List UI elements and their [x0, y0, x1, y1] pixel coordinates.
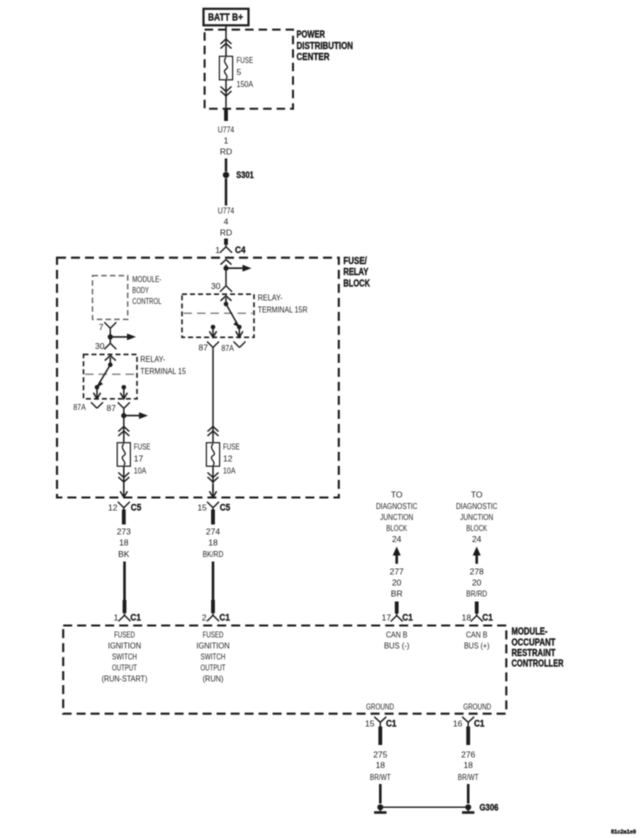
wire fuse to PDC exit [225, 80, 227, 109]
relay 15R coil bar [184, 312, 253, 314]
C4 mate chevron inside block [221, 260, 232, 265]
connector C4 pin 1 [220, 245, 232, 253]
svg-text:RELAY-: RELAY- [258, 292, 283, 302]
relay 15 pin 87 exit arrow [123, 387, 125, 399]
svg-text:87: 87 [199, 343, 209, 353]
svg-text:GROUND: GROUND [463, 702, 491, 712]
svg-text:BK: BK [118, 549, 130, 559]
svg-text:16: 16 [453, 718, 463, 728]
relay 15 pin 87A exit arrow [96, 387, 98, 399]
svg-text:(RUN): (RUN) [203, 674, 224, 684]
battery feed BATT B+ box [204, 9, 249, 26]
svg-text:24: 24 [472, 534, 482, 544]
svg-text:JUNCTION: JUNCTION [380, 512, 413, 522]
svg-text:C5: C5 [220, 502, 231, 512]
svg-text:TO: TO [391, 490, 403, 500]
block exit arrow to C5 pin 12 [123, 485, 125, 498]
svg-text:275: 275 [373, 749, 387, 759]
connector C1 pin 2 [207, 613, 219, 621]
svg-text:274: 274 [206, 527, 220, 537]
svg-text:1: 1 [224, 135, 229, 145]
svg-text:CAN B: CAN B [386, 630, 408, 640]
junction below pin 87 with branch arrow [123, 412, 125, 422]
svg-text:BR/WT: BR/WT [458, 772, 479, 782]
relay 15R common chevron [221, 296, 232, 301]
svg-text:BATT B+: BATT B+ [208, 13, 243, 24]
connector C1 pin 15 [374, 717, 386, 727]
svg-text:10A: 10A [223, 465, 236, 475]
svg-text:OUTPUT: OUTPUT [201, 663, 226, 673]
module occupant restraint controller dashed box [63, 626, 506, 714]
svg-text:BUS (+): BUS (+) [464, 641, 490, 651]
svg-text:15: 15 [365, 718, 375, 728]
svg-text:U774: U774 [218, 124, 235, 134]
svg-text:JUNCTION: JUNCTION [460, 512, 493, 522]
svg-text:OCCUPANT: OCCUPANT [512, 637, 556, 648]
svg-text:CAN B: CAN B [466, 630, 488, 640]
svg-text:CONTROLLER: CONTROLLER [512, 658, 564, 669]
ground bus wire [380, 806, 468, 808]
svg-text:18: 18 [463, 760, 473, 770]
svg-text:17: 17 [382, 613, 392, 623]
fuse 5 150A [219, 56, 232, 80]
svg-text:G306: G306 [480, 803, 499, 813]
feed arrows up into fuse 12 [208, 427, 219, 432]
ground G306 right leg [465, 804, 471, 810]
svg-text:FUSED: FUSED [114, 630, 135, 640]
svg-text:278: 278 [470, 567, 484, 577]
svg-text:TO: TO [471, 490, 483, 500]
svg-text:MODULE-: MODULE- [132, 274, 161, 284]
wire stub below C5 pin 15 [211, 510, 215, 525]
svg-text:C1: C1 [130, 613, 141, 623]
svg-text:18: 18 [208, 538, 218, 548]
svg-text:150A: 150A [237, 79, 254, 89]
feed arrows up [221, 39, 232, 44]
svg-text:TERMINAL 15R: TERMINAL 15R [258, 304, 308, 314]
svg-text:POWER: POWER [297, 30, 326, 41]
svg-text:BR: BR [391, 588, 403, 598]
svg-text:FUSE/: FUSE/ [343, 256, 367, 267]
svg-text:87: 87 [107, 403, 117, 413]
wire stub below C5 pin 12 [122, 510, 126, 525]
relay 15 common node [108, 362, 113, 367]
wire stub above C1 pin 2 [211, 600, 215, 613]
svg-text:OUTPUT: OUTPUT [112, 663, 137, 673]
svg-text:BODY: BODY [132, 285, 149, 295]
svg-text:CONTROL: CONTROL [132, 296, 161, 306]
svg-text:7: 7 [99, 322, 104, 332]
fuse/relay block dashed box [57, 258, 339, 498]
relay terminal 15R dashed box [182, 294, 254, 337]
wire stub above C1 pin 1 [123, 600, 127, 613]
svg-text:12: 12 [108, 502, 118, 512]
svg-text:15: 15 [197, 502, 207, 512]
connector C1 pin 17 [391, 614, 403, 622]
svg-text:BUS (-): BUS (-) [384, 641, 410, 651]
junction under C4 with branch arrow [223, 266, 228, 271]
wire from splice [225, 179, 228, 206]
relay 15R contact 87 node [211, 325, 216, 330]
svg-text:C1: C1 [402, 613, 413, 623]
svg-text:5: 5 [237, 67, 242, 77]
relay 15R contact 87A node [237, 325, 242, 330]
wire 274 run [212, 562, 215, 602]
svg-text:MODULE-: MODULE- [512, 627, 548, 638]
svg-text:DIAGNOSTIC: DIAGNOSTIC [376, 501, 418, 511]
svg-text:IGNITION: IGNITION [196, 641, 229, 651]
svg-text:C5: C5 [131, 502, 142, 512]
svg-text:BLOCK: BLOCK [466, 523, 487, 533]
svg-text:4: 4 [224, 216, 229, 226]
svg-text:FUSED: FUSED [203, 630, 224, 640]
block exit arrow to C5 pin 15 [212, 485, 214, 498]
svg-text:CENTER: CENTER [297, 52, 330, 63]
wire to splice S301 [225, 159, 228, 172]
connector C1 pin 18 [471, 614, 483, 622]
arrow to diagnostic junction block [395, 555, 398, 564]
feed arrows down from fuse 12 [208, 473, 219, 478]
wire pin 87 to fuse 12 [212, 351, 214, 443]
power distribution center dashed box [205, 30, 293, 109]
svg-text:C4: C4 [235, 245, 246, 255]
svg-text:RELAY: RELAY [343, 267, 368, 278]
svg-text:DIAGNOSTIC: DIAGNOSTIC [456, 501, 498, 511]
relay 15 contact 87 node [122, 385, 127, 390]
relay 15R pin 87A exit arrow [238, 327, 240, 337]
fuse 12 10A [206, 443, 219, 467]
svg-text:RESTRAINT: RESTRAINT [512, 648, 556, 659]
connector C1 pin 1 [119, 613, 131, 621]
svg-text:C1: C1 [219, 613, 230, 623]
svg-text:SWITCH: SWITCH [201, 652, 226, 662]
wire stub above C1 pin 18 [475, 602, 479, 614]
svg-text:FUSE: FUSE [237, 55, 254, 65]
wire battery to fuse 5 [225, 25, 227, 56]
ground G306 left leg [377, 804, 383, 810]
svg-text:DISTRIBUTION: DISTRIBUTION [297, 41, 354, 52]
wire 273 run [123, 562, 126, 602]
wire fuse 17 to block exit [123, 466, 125, 491]
wire stub above C4 [224, 239, 228, 245]
wire stub below C1 pin 16 [466, 727, 470, 746]
svg-text:C1: C1 [474, 718, 485, 728]
svg-text:SWITCH: SWITCH [112, 652, 137, 662]
wire 276 run [467, 784, 470, 804]
svg-text:BR/WT: BR/WT [370, 772, 391, 782]
svg-text:(RUN-START): (RUN-START) [102, 674, 148, 684]
svg-text:S301: S301 [236, 170, 254, 180]
relay 15 contact 87A node [95, 385, 100, 390]
relay 15 switch blade to 87A [98, 365, 111, 386]
svg-text:10A: 10A [134, 465, 147, 475]
wire stub below C1 pin 15 [378, 727, 382, 746]
wire to junction [225, 265, 227, 284]
svg-text:24: 24 [392, 534, 402, 544]
relay 15R common node [224, 302, 229, 307]
relay 15R switch blade to 87A [226, 304, 239, 326]
arrow to diagnostic junction block [475, 555, 478, 564]
svg-text:FUSE: FUSE [223, 442, 240, 452]
svg-text:273: 273 [117, 527, 131, 537]
svg-text:87A: 87A [221, 343, 234, 353]
svg-text:20: 20 [472, 577, 482, 587]
svg-text:81c2a1e9: 81c2a1e9 [611, 830, 636, 836]
svg-text:RD: RD [220, 146, 232, 156]
svg-text:276: 276 [461, 749, 475, 759]
relay 15 common chevron [105, 356, 116, 361]
svg-text:BR/RD: BR/RD [466, 588, 487, 598]
svg-text:1: 1 [114, 613, 119, 623]
svg-text:30: 30 [95, 341, 105, 351]
svg-text:12: 12 [223, 454, 233, 464]
svg-text:RELAY-: RELAY- [140, 354, 165, 364]
svg-text:18: 18 [462, 613, 472, 623]
svg-text:GROUND: GROUND [366, 702, 394, 712]
svg-text:17: 17 [134, 454, 144, 464]
svg-text:TERMINAL 15: TERMINAL 15 [140, 366, 186, 376]
connector C1 pin 16 [462, 717, 474, 727]
feed arrows up into fuse 17 [118, 427, 129, 432]
svg-text:U774: U774 [218, 205, 235, 215]
svg-text:87A: 87A [73, 402, 86, 412]
junction under module pin 7 with branch arrow [109, 333, 111, 342]
svg-text:C1: C1 [386, 718, 397, 728]
wire stub below PDC [224, 108, 228, 121]
wire stub above C1 pin 17 [395, 602, 399, 614]
svg-text:1: 1 [215, 245, 220, 255]
feed arrows down [221, 87, 232, 92]
wire 275 run [379, 784, 382, 804]
feed arrows down from fuse 17 [118, 473, 129, 478]
wire fuse 12 to block exit [212, 466, 214, 491]
svg-text:BLOCK: BLOCK [343, 278, 370, 289]
svg-text:18: 18 [376, 760, 386, 770]
svg-text:277: 277 [390, 567, 404, 577]
module body control dashed box [93, 276, 128, 320]
svg-text:30: 30 [211, 281, 221, 291]
relay 15 coil bar [85, 373, 136, 375]
svg-text:C1: C1 [482, 613, 493, 623]
splice S301 [223, 172, 229, 178]
svg-text:IGNITION: IGNITION [108, 641, 141, 651]
relay 15R pin 87 exit arrow [212, 327, 214, 337]
svg-text:BLOCK: BLOCK [386, 523, 407, 533]
svg-text:RD: RD [220, 227, 232, 237]
fuse 17 10A [117, 443, 130, 467]
wire to fuse 17 [123, 421, 125, 443]
svg-text:FUSE: FUSE [134, 442, 151, 452]
svg-text:2: 2 [202, 613, 207, 623]
relay terminal 15 dashed box [84, 354, 138, 398]
svg-text:18: 18 [119, 538, 129, 548]
svg-text:20: 20 [392, 577, 402, 587]
svg-text:BK/RD: BK/RD [203, 549, 224, 559]
